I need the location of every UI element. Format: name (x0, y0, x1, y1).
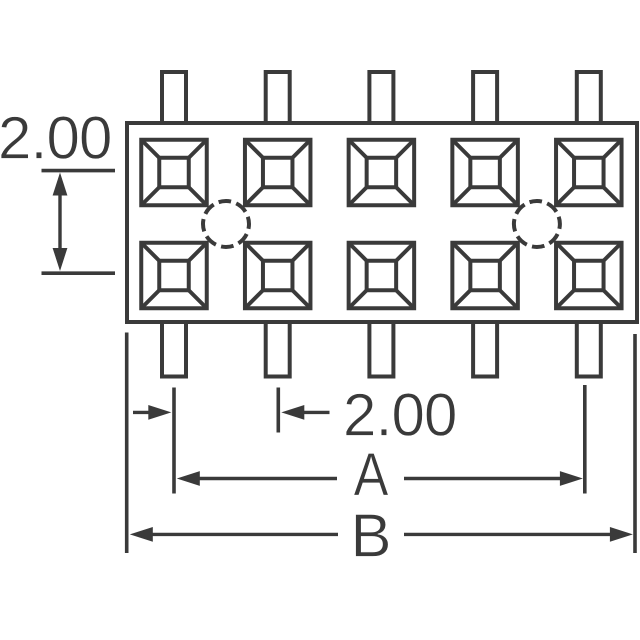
svg-text:A: A (354, 440, 389, 509)
locating hole (dashed circle) left (203, 201, 249, 247)
pad 10 (556, 243, 622, 309)
connector body outline (127, 123, 637, 322)
bottom pin 4 (473, 322, 497, 377)
svg-text:2.00: 2.00 (0, 105, 112, 172)
dimension text 2.00 (column pitch) (343, 381, 457, 448)
extension line row 1 (42, 169, 116, 173)
pad 2 (245, 140, 311, 206)
dimension B line with arrows (130, 527, 633, 542)
bottom pin 3 (369, 322, 393, 377)
svg-text:B: B (350, 501, 391, 570)
pad 9 (452, 243, 517, 309)
pad 5 (556, 140, 622, 206)
bottom pin 2 (266, 322, 290, 377)
dimension A line with arrows (177, 471, 583, 486)
top pin 5 (577, 72, 601, 123)
bottom pin 1 (162, 322, 186, 377)
extension line column 2 (276, 388, 280, 433)
top pin 1 (162, 72, 186, 123)
svg-text:2.00: 2.00 (343, 381, 457, 448)
extension line B right (633, 334, 637, 553)
top pin 4 (473, 72, 497, 123)
locating hole (dashed circle) right (514, 201, 560, 247)
extension line column 5 (583, 385, 587, 494)
dimension text 2.00 (row pitch) (0, 105, 112, 172)
extension line column 1 (172, 388, 176, 494)
pad 3 (349, 140, 415, 206)
vertical dimension arrow line (53, 173, 68, 272)
bottom pin 5 (577, 322, 601, 377)
dimension text B (350, 501, 391, 570)
extension line B left (body left edge) (125, 333, 129, 554)
pad 6 (141, 243, 207, 309)
pad 4 (452, 140, 517, 206)
dimension 2.00 (column pitch) left arrow (133, 405, 171, 420)
top pin 2 (266, 72, 290, 123)
dimension text A (354, 440, 389, 509)
top pin 3 (369, 72, 393, 123)
pad 8 (349, 243, 415, 309)
extension line row 2 (42, 271, 116, 275)
pad 1 (141, 140, 207, 206)
dimension 2.00 (column pitch) right arrow (281, 405, 329, 420)
pad 7 (245, 243, 311, 309)
